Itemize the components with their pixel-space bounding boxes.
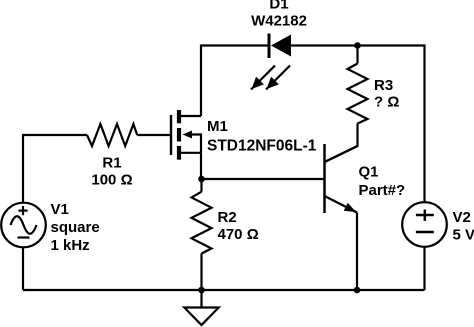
wire: R2 bottom to rail [200,254,202,291]
ground [184,290,218,325]
svg-text:STD12NF06L-1: STD12NF06L-1 [207,138,317,155]
node: source/R2/base junction [198,176,205,183]
diode D1 (LED) [269,34,291,59]
wire: bottom rail [23,289,425,291]
svg-text:5 V: 5 V [453,227,474,244]
wire: top rail right (LED anode to right corner, down to V2) [291,46,425,203]
svg-text:R1: R1 [102,155,121,172]
LED emission arrow 1 [251,66,275,90]
svg-text:V2: V2 [453,209,471,226]
node: R2 / ground / rail junction [198,287,205,294]
source V1 [1,203,46,248]
wire: V2 bottom to rail [423,247,425,290]
svg-text:470 Ω: 470 Ω [218,226,259,243]
svg-text:R3: R3 [374,77,393,94]
resistor R1 [87,124,137,146]
transistor Q1 (NPN) [325,144,358,213]
transistor M1 (NMOS) [171,110,201,160]
wire: top rail left (drain to LED cathode) [201,46,268,117]
svg-text:R2: R2 [218,209,237,226]
wire: rail dot to R3 [356,46,358,64]
svg-text:1 kHz: 1 kHz [51,237,90,254]
svg-text:? Ω: ? Ω [374,94,399,111]
resistor R3 [348,64,368,124]
wire: R3 bottom to Q1 collector [325,124,358,163]
svg-text:D1: D1 [269,0,288,13]
node: top rail / R3 junction [354,42,361,49]
source V2 [402,202,447,247]
wire: V1 top to R1 [23,135,87,203]
svg-text:square: square [51,219,100,236]
svg-text:Q1: Q1 [359,164,379,181]
wire: node to Q1 base [201,178,325,180]
wire: Q1 emitter down to rail [356,213,358,291]
resistor R2 [192,192,212,254]
svg-text:M1: M1 [207,118,228,135]
wire: node to R2 top [200,179,202,192]
wire: R1 to gate [137,134,170,136]
node: emitter / rail junction [354,287,361,294]
svg-text:W42182: W42182 [251,13,307,30]
wire: MOSFET source down to node [200,153,202,179]
LED emission arrow 2 [266,66,290,90]
svg-text:Part#?: Part#? [359,182,406,199]
svg-text:100 Ω: 100 Ω [91,172,132,189]
wire: V1 bottom to rail [22,247,24,290]
svg-text:V1: V1 [51,201,69,218]
